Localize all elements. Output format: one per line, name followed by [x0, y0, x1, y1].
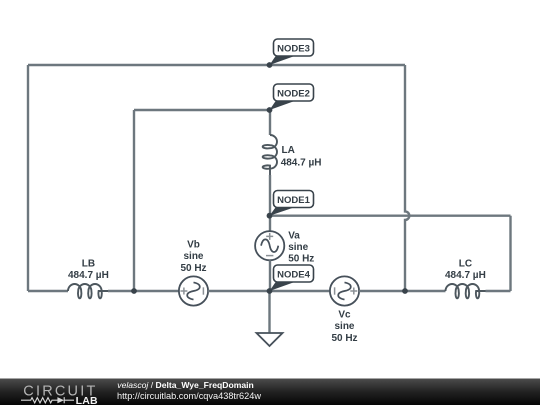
wire NODE2 vertical	[133, 110, 135, 291]
inductor LB	[68, 284, 108, 298]
junction dot at (269.5,65)	[267, 62, 273, 68]
ground	[257, 333, 283, 346]
node NODE2	[274, 84, 314, 101]
svg-text:NODE4: NODE4	[277, 269, 310, 280]
wire NODE1 horizontal	[270, 214, 511, 216]
svg-text:LAB: LAB	[76, 395, 98, 405]
svg-text:Vb: Vb	[187, 239, 200, 250]
node NODE4	[274, 265, 314, 282]
wire bottom: LC to right vertical	[486, 290, 511, 292]
svg-text:sine: sine	[334, 321, 354, 332]
svg-text:velascoj / Delta_Wye_FreqDomai: velascoj / Delta_Wye_FreqDomain	[117, 380, 253, 390]
junction dot at (269.5,110)	[267, 107, 273, 113]
voltage source Vb	[179, 276, 208, 305]
footer bar	[0, 379, 540, 405]
wire ground stem	[268, 291, 270, 333]
wire mid vertical with hop	[405, 65, 409, 291]
wire bottom: Vc to LC	[359, 290, 446, 292]
junction dot at (269.5,291)	[267, 288, 273, 294]
svg-text:NODE3: NODE3	[277, 43, 310, 54]
svg-text:sine: sine	[183, 251, 203, 262]
node NODE1	[274, 191, 314, 208]
wire Va to bottom	[269, 260, 271, 291]
svg-text:LB: LB	[82, 259, 95, 270]
node NODE3 tail	[270, 56, 297, 66]
wire bottom left segment	[28, 290, 68, 292]
node NODE2 tail	[270, 101, 297, 111]
wire bottom: LB to Vb	[108, 290, 179, 292]
svg-text:Va: Va	[288, 230, 300, 241]
junction dot at (405,291)	[402, 288, 408, 294]
wire top NODE3 net	[28, 64, 405, 66]
svg-text:50 Hz: 50 Hz	[331, 333, 357, 344]
wire NODE2 to LA	[269, 110, 271, 135]
wire bottom: Vb to Vc	[208, 290, 330, 292]
wire NODE1 to Va	[269, 216, 271, 231]
svg-text:484.7 µH: 484.7 µH	[445, 270, 486, 281]
svg-text:50 Hz: 50 Hz	[288, 254, 314, 265]
node NODE1 tail	[270, 207, 297, 216]
wire LA to NODE1	[269, 175, 271, 216]
svg-text:http://circuitlab.com/cqva438t: http://circuitlab.com/cqva438tr624w	[117, 391, 261, 401]
svg-text:NODE2: NODE2	[277, 88, 310, 99]
wire left vertical	[27, 65, 29, 291]
svg-text:LC: LC	[459, 259, 472, 270]
svg-text:NODE1: NODE1	[277, 195, 310, 206]
junction dot at (134,291)	[131, 288, 137, 294]
wire right vertical (NODE1 loop)	[509, 216, 511, 291]
node NODE3	[274, 39, 314, 56]
voltage source Vc	[330, 276, 359, 305]
logo glyph resistor-diode	[21, 397, 74, 403]
svg-text:484.7 µH: 484.7 µH	[281, 158, 322, 169]
svg-text:50 Hz: 50 Hz	[180, 263, 206, 274]
svg-text:Vc: Vc	[338, 309, 351, 320]
node NODE4 tail	[270, 282, 297, 292]
inductor LA	[263, 135, 277, 175]
inductor LC	[446, 284, 486, 298]
svg-text:484.7 µH: 484.7 µH	[68, 270, 109, 281]
svg-text:sine: sine	[288, 242, 308, 253]
svg-text:LA: LA	[282, 145, 295, 156]
wire NODE2 horizontal	[134, 109, 270, 111]
voltage source Va	[255, 231, 284, 260]
junction dot at (269.5,215.7)	[267, 213, 273, 219]
